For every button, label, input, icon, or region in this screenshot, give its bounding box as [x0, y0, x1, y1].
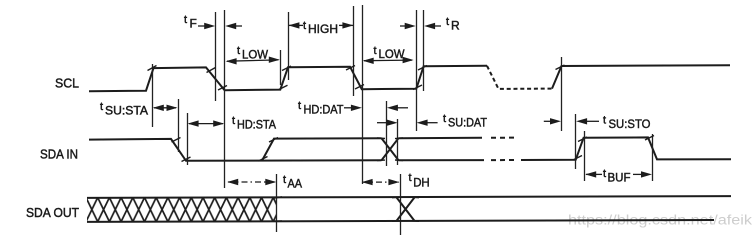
svg-text:SDA OUT: SDA OUT [26, 205, 79, 220]
svg-text:F: F [190, 17, 197, 31]
svg-text:SU:STA: SU:STA [105, 104, 148, 118]
svg-text:HIGH: HIGH [308, 22, 338, 36]
svg-text:LOW: LOW [379, 47, 406, 61]
svg-text:t: t [232, 115, 235, 127]
svg-text:t: t [409, 172, 412, 184]
svg-text:LOW: LOW [242, 48, 269, 62]
svg-text:t: t [374, 45, 377, 57]
svg-text:t: t [443, 113, 446, 125]
svg-text:DH: DH [413, 176, 430, 190]
svg-text:SU:STO: SU:STO [609, 117, 651, 131]
svg-text:t: t [283, 174, 286, 186]
svg-text:R: R [451, 19, 460, 33]
svg-text:t: t [446, 16, 449, 28]
svg-text:HD:DAT: HD:DAT [304, 103, 345, 117]
svg-text:t: t [100, 101, 103, 113]
svg-text:t: t [298, 100, 301, 112]
svg-text:SCL: SCL [55, 76, 79, 91]
svg-text:t: t [603, 115, 606, 127]
svg-text:HD:STA: HD:STA [237, 118, 276, 132]
svg-text:t: t [303, 20, 306, 32]
svg-text:SU:DAT: SU:DAT [448, 116, 488, 130]
svg-text:t: t [603, 168, 606, 180]
svg-text:AA: AA [288, 177, 303, 191]
svg-text:t: t [237, 45, 240, 57]
svg-text:SDA IN: SDA IN [40, 147, 78, 162]
svg-text:t: t [184, 14, 187, 26]
svg-text:BUF: BUF [608, 171, 631, 185]
